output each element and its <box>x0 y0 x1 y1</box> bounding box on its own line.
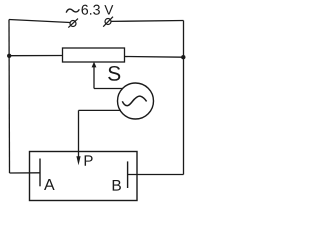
label A <box>44 179 55 190</box>
wire to resistor left <box>9 55 62 57</box>
wire resistor right <box>125 56 184 59</box>
wiper arrow S <box>92 62 97 89</box>
wire top-left horizontal <box>9 20 70 23</box>
wire right vertical <box>183 21 185 175</box>
wire probe vertical <box>78 110 80 158</box>
label B <box>113 180 121 191</box>
AC source G (circle) <box>118 83 154 119</box>
label S <box>108 66 120 81</box>
electrode A plate <box>39 159 41 187</box>
label P <box>85 155 93 165</box>
wire source to probe horizontal <box>79 109 122 111</box>
wire wiper to source <box>94 88 123 90</box>
sine wave inside source <box>122 96 146 106</box>
terminal right <box>103 17 113 27</box>
wire to electrode B <box>128 174 184 176</box>
wire to electrode A <box>10 172 41 174</box>
wire top-right horizontal <box>111 20 184 23</box>
node junction right <box>181 55 185 59</box>
probe arrow P <box>76 156 80 165</box>
wire left vertical <box>8 20 11 174</box>
tank (vessel) rectangle <box>30 152 138 201</box>
terminal left <box>68 19 78 28</box>
electrode B plate <box>127 161 129 188</box>
node junction left <box>7 54 11 58</box>
label ~6.3 V <box>66 5 113 15</box>
resistor R (rheostat body) <box>63 48 125 62</box>
